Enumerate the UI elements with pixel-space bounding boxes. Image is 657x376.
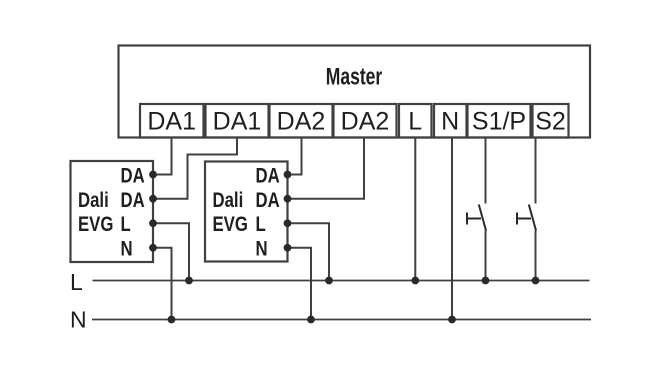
svg-text:S1/P: S1/P <box>472 107 526 135</box>
svg-text:EVG: EVG <box>78 213 113 236</box>
svg-text:DA: DA <box>256 189 280 212</box>
terminal DA1 (pin 1) <box>140 104 204 138</box>
label Master <box>326 64 382 90</box>
svg-text:DA: DA <box>256 164 280 187</box>
terminal S2 <box>533 104 569 138</box>
terminal DA2 (pin 3) <box>270 104 333 138</box>
svg-text:L: L <box>408 107 422 135</box>
svg-text:N: N <box>256 237 268 260</box>
label Dali EVG (EVG1) <box>78 189 109 212</box>
terminal DA2 (pin 4) <box>334 104 397 138</box>
master box U1 <box>119 46 591 138</box>
wire switch S1 to L bus <box>485 231 487 281</box>
svg-text:S2: S2 <box>535 107 566 135</box>
junction master-N on N bus <box>448 316 456 324</box>
terminal L <box>399 104 432 138</box>
node EVG2 DA1 <box>284 171 292 179</box>
terminal S1/P <box>468 104 531 138</box>
svg-text:Dali: Dali <box>213 189 244 212</box>
wire master L terminal to L bus <box>414 138 416 281</box>
junction EVG2-L on L bus <box>325 277 333 285</box>
svg-text:L: L <box>70 269 83 295</box>
switch S2 (push-button, blade) <box>529 205 536 231</box>
wire master N terminal to N bus <box>451 138 453 320</box>
pin label DA (EVG2 pin1) <box>256 164 280 187</box>
svg-text:Master: Master <box>326 64 382 90</box>
terminal N <box>434 104 467 138</box>
node EVG2 DA2 <box>284 195 292 203</box>
wire EVG1 N to N bus <box>153 248 172 320</box>
ballast EVG1 box <box>71 161 154 262</box>
junction S1 on L bus <box>482 277 490 285</box>
node EVG1 DA2 <box>149 195 157 203</box>
switch S1 (push-button, blade) <box>479 205 486 231</box>
wire EVG1 L to L bus <box>153 223 189 280</box>
wire EVG2 N to N bus <box>288 248 312 320</box>
N bus wire <box>92 319 591 321</box>
svg-text:DA2: DA2 <box>277 107 326 135</box>
pin label L (EVG2 pin3) <box>256 213 266 236</box>
svg-text:Dali: Dali <box>78 189 109 212</box>
wire DA1#2 to EVG1 DA2 <box>153 138 237 199</box>
pin label N (EVG1 pin4) <box>121 237 133 260</box>
wire DA2#1 to EVG2 DA1 <box>288 138 302 175</box>
svg-text:DA1: DA1 <box>147 107 196 135</box>
switch S1 actuator <box>467 218 482 220</box>
svg-text:EVG: EVG <box>213 213 248 236</box>
node EVG1 DA1 <box>149 171 157 179</box>
node EVG2 N <box>284 244 292 252</box>
node EVG2 L <box>284 219 292 227</box>
wire S2 terminal to switch S2 <box>535 138 537 204</box>
pin label DA (EVG2 pin2) <box>256 189 280 212</box>
junction EVG1-L on L bus <box>185 277 193 285</box>
wire DA2#2 to EVG2 DA2 <box>288 138 365 199</box>
label Dali EVG (EVG2) <box>213 189 244 212</box>
svg-text:N: N <box>121 237 133 260</box>
svg-text:N: N <box>441 107 459 135</box>
pin label DA (EVG1 pin2) <box>121 189 145 212</box>
wire S1/P terminal to switch S1 <box>485 138 487 204</box>
wire EVG2 L to L bus <box>288 223 330 280</box>
junction EVG1-N on N bus <box>168 316 176 324</box>
svg-text:DA1: DA1 <box>213 107 262 135</box>
L bus wire <box>93 280 590 282</box>
svg-text:DA: DA <box>121 189 145 212</box>
svg-text:DA2: DA2 <box>341 107 390 135</box>
switch S2 actuator <box>517 218 532 220</box>
node EVG1 N <box>149 244 157 252</box>
svg-text:N: N <box>70 307 87 333</box>
pin label L (EVG1 pin3) <box>121 213 131 236</box>
node EVG1 L <box>149 219 157 227</box>
wire DA1#1 to EVG1 DA1 <box>153 138 172 175</box>
junction S2 on L bus <box>532 277 540 285</box>
junction EVG2-N on N bus <box>307 316 315 324</box>
svg-text:DA: DA <box>121 164 145 187</box>
svg-text:L: L <box>121 213 131 236</box>
junction master-L on L bus <box>411 277 419 285</box>
wire switch S2 to L bus <box>535 231 537 281</box>
pin label N (EVG2 pin4) <box>256 237 268 260</box>
terminal DA1 (pin 2) <box>206 104 269 138</box>
pin label DA (EVG1 pin1) <box>121 164 145 187</box>
svg-text:L: L <box>256 213 266 236</box>
ballast EVG2 box <box>205 162 288 262</box>
